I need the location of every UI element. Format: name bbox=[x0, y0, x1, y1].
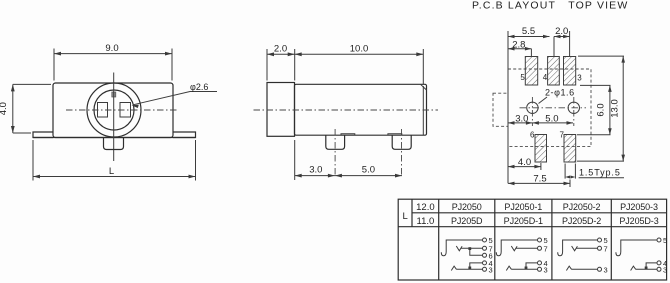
svg-text:2.0: 2.0 bbox=[555, 26, 568, 37]
svg-text:10.0: 10.0 bbox=[350, 44, 369, 55]
svg-text:PJ205D: PJ205D bbox=[451, 216, 483, 226]
svg-text:12.0: 12.0 bbox=[416, 202, 435, 213]
svg-text:PJ205D-2: PJ205D-2 bbox=[562, 216, 601, 226]
svg-text:7: 7 bbox=[560, 131, 565, 140]
svg-text:1.5Typ.5: 1.5Typ.5 bbox=[579, 168, 621, 178]
svg-text:3.0: 3.0 bbox=[515, 114, 528, 125]
svg-text:13.0: 13.0 bbox=[610, 99, 621, 118]
svg-text:PJ2050-3: PJ2050-3 bbox=[620, 202, 658, 212]
svg-text:PJ2050: PJ2050 bbox=[452, 202, 482, 212]
svg-text:5: 5 bbox=[520, 73, 525, 82]
svg-text:6: 6 bbox=[530, 131, 535, 140]
svg-text:PJ2050-2: PJ2050-2 bbox=[563, 202, 601, 212]
svg-text:3: 3 bbox=[577, 74, 582, 83]
svg-text:4.0: 4.0 bbox=[0, 102, 9, 115]
svg-text:L: L bbox=[109, 166, 114, 177]
svg-text:PJ205D-1: PJ205D-1 bbox=[504, 216, 543, 226]
svg-text:3: 3 bbox=[604, 266, 608, 275]
svg-text:7: 7 bbox=[604, 245, 608, 254]
svg-text:2.8: 2.8 bbox=[512, 40, 525, 51]
svg-text:2-φ1.6: 2-φ1.6 bbox=[545, 88, 575, 98]
svg-text:7: 7 bbox=[544, 245, 548, 254]
svg-text:4.0: 4.0 bbox=[518, 157, 531, 168]
svg-text:P.C.B LAYOUT TOP VIEW: P.C.B LAYOUT TOP VIEW bbox=[472, 0, 628, 12]
svg-text:PJ2050-1: PJ2050-1 bbox=[504, 202, 542, 212]
svg-text:5.0: 5.0 bbox=[545, 114, 558, 125]
svg-text:5.5: 5.5 bbox=[522, 26, 535, 37]
svg-text:3: 3 bbox=[489, 266, 493, 275]
svg-text:2.0: 2.0 bbox=[274, 44, 287, 55]
svg-text:3: 3 bbox=[544, 266, 548, 275]
svg-text:11.0: 11.0 bbox=[417, 216, 435, 227]
svg-text:5: 5 bbox=[663, 236, 667, 245]
svg-text:3: 3 bbox=[663, 266, 667, 275]
svg-text:4: 4 bbox=[543, 73, 548, 82]
svg-text:6.0: 6.0 bbox=[596, 103, 607, 116]
svg-text:PJ205D-3: PJ205D-3 bbox=[619, 216, 658, 226]
svg-text:φ2.6: φ2.6 bbox=[190, 82, 208, 92]
svg-text:3.0: 3.0 bbox=[309, 165, 322, 176]
svg-text:7.5: 7.5 bbox=[533, 174, 546, 185]
svg-text:5.0: 5.0 bbox=[362, 165, 375, 176]
svg-text:L: L bbox=[403, 211, 408, 222]
svg-text:9.0: 9.0 bbox=[105, 43, 118, 54]
